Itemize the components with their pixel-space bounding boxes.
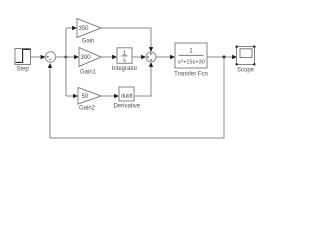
wire Sum1 output to branch node [56,56,66,58]
sum junction Sum1 (+,-) [45,52,55,62]
wire Gain to Sum2 top [101,28,153,52]
scope block Scope [236,46,256,74]
integrator block Integrator (1/s) [112,48,138,72]
wire Derivative to Sum2 bottom [134,62,153,96]
gain block Gain2 (50) [78,88,101,112]
svg-text:350: 350 [79,26,90,32]
transfer function block Transfer Fcn [174,43,208,78]
svg-text:Gain2: Gain2 [79,106,96,112]
svg-text:Gain1: Gain1 [80,70,97,76]
wire branch to Gain [66,26,77,30]
node branch junction [65,56,68,59]
wire feedback from node to Sum1 [48,57,224,138]
wire Transfer Fcn to Scope [207,55,237,59]
wire Integrator to Sum2 left [132,55,146,59]
svg-text:du/dt: du/dt [121,93,133,99]
svg-text:Integrator: Integrator [112,66,138,72]
sum junction Sum2 (+,+,+) [146,52,156,62]
svg-text:s: s [123,58,126,64]
wire Step to Sum1 [31,55,46,59]
svg-text:Scope: Scope [237,68,255,74]
wire branch to Gain2 [66,94,78,98]
wire branch to Gain1 [66,55,79,59]
step source block Step [15,49,31,73]
wire Sum2 to Transfer Fcn [156,55,175,59]
wire Gain1 to Integrator [101,55,117,59]
wire Gain2 to Derivative [101,94,119,98]
svg-text:50: 50 [82,94,89,100]
node feedback junction [223,56,226,59]
derivative block Derivative (du/dt) [113,87,140,110]
svg-text:Step: Step [16,67,29,73]
svg-text:Transfer Fcn: Transfer Fcn [174,72,208,78]
gain block Gain1 (300) [79,48,101,76]
gain block Gain (350) [77,19,101,45]
svg-text:300: 300 [81,55,92,61]
svg-text:Gain: Gain [82,39,95,45]
wire branch vertical [65,28,67,96]
svg-text:Derivative: Derivative [113,104,140,110]
